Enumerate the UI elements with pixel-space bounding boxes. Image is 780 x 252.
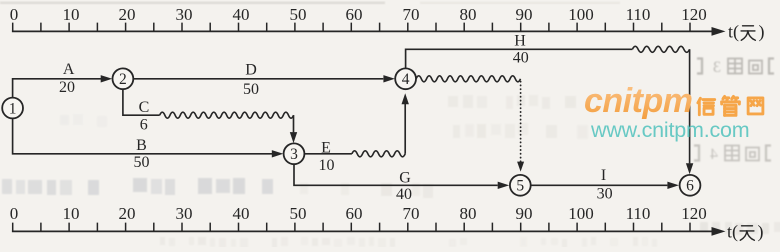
svg-text:B: B xyxy=(136,137,147,154)
wire: activity E from node 3 right, wavy float then up to node 4 xyxy=(305,153,352,155)
arrowhead of A into node 2 xyxy=(101,75,113,82)
wire: dotted drop from day 90 down to node 5 xyxy=(520,82,522,162)
svg-text:50: 50 xyxy=(243,81,259,98)
svg-text:60: 60 xyxy=(346,204,363,223)
arrowhead of C into node 3 xyxy=(290,132,297,143)
svg-text:30: 30 xyxy=(176,5,193,24)
svg-text:D: D xyxy=(245,62,257,79)
svg-text:3: 3 xyxy=(290,146,298,163)
svg-text:0: 0 xyxy=(10,5,19,24)
svg-text:80: 80 xyxy=(460,5,477,24)
watermark logo CJK char xyxy=(698,98,715,114)
svg-text:50: 50 xyxy=(134,154,150,171)
svg-text:0: 0 xyxy=(10,204,19,223)
activity D label / duration 50 xyxy=(243,62,259,99)
svg-text:E: E xyxy=(321,139,331,156)
svg-text:70: 70 xyxy=(403,5,420,24)
svg-text:20: 20 xyxy=(119,204,136,223)
arrowhead of I into node 6 xyxy=(667,182,679,189)
node 5 xyxy=(510,175,531,196)
bottom axis ticks every 5 days xyxy=(13,223,690,232)
arrowhead of E into node 4 xyxy=(402,93,409,104)
watermark logo CJK char xyxy=(748,98,763,114)
wire: activity I from node 5 to node 6 xyxy=(531,184,668,186)
svg-text:40: 40 xyxy=(233,5,250,24)
watermark logo CJK char xyxy=(722,96,740,115)
arrowhead of H into node 6 xyxy=(686,163,693,174)
svg-text:3: 3 xyxy=(713,59,721,76)
svg-text:70: 70 xyxy=(403,204,420,223)
activity C label / duration 6 xyxy=(139,99,150,133)
svg-text:H: H xyxy=(514,33,526,50)
svg-text:40: 40 xyxy=(396,186,412,203)
svg-text:10: 10 xyxy=(63,204,80,223)
top axis line xyxy=(12,30,712,32)
svg-text:100: 100 xyxy=(568,204,594,223)
arrowhead of dotted drop into node 5 xyxy=(517,162,524,172)
svg-text:4: 4 xyxy=(402,71,410,88)
svg-text:cnitpm: cnitpm xyxy=(584,82,692,120)
svg-text:10: 10 xyxy=(63,5,80,24)
activity E label / duration 10 xyxy=(319,139,335,174)
svg-text:C: C xyxy=(139,99,150,116)
arrowhead of G into node 5 xyxy=(498,182,510,189)
wire: activity G from node 3 down and right to node 5 xyxy=(294,164,498,185)
svg-text:G: G xyxy=(399,169,411,186)
svg-text:2: 2 xyxy=(119,71,127,88)
svg-text:100: 100 xyxy=(568,5,594,24)
top axis day numbers xyxy=(10,5,707,24)
svg-text:6: 6 xyxy=(686,178,694,195)
svg-text:110: 110 xyxy=(626,5,651,24)
arrowhead of D into node 4 xyxy=(383,75,395,82)
bottom axis arrowhead xyxy=(712,227,726,236)
activity G label / duration 40 xyxy=(396,169,412,203)
svg-text:20: 20 xyxy=(59,79,75,96)
svg-text:A: A xyxy=(63,61,75,78)
svg-text:4: 4 xyxy=(710,146,718,163)
top axis arrowhead xyxy=(712,27,726,36)
activity I label / duration 30 xyxy=(597,167,613,203)
node 1 xyxy=(2,98,23,119)
svg-text:t(: t( xyxy=(727,221,738,242)
svg-text:40: 40 xyxy=(233,204,250,223)
wire: activity H from node 4 up, right, wavy float, down to node 6 xyxy=(406,49,633,68)
arrowhead of B into node 3 xyxy=(272,150,284,157)
node 6 xyxy=(680,175,701,196)
bottom axis day numbers xyxy=(10,204,707,223)
svg-text:www.cnitpm.com: www.cnitpm.com xyxy=(590,118,749,142)
wire: activity B from node 1 down and right to node 3 xyxy=(13,119,273,154)
wire: dummy free float wavy from node 4 to day 90 xyxy=(416,76,520,82)
activity B label / duration 50 xyxy=(134,137,150,171)
svg-text:60: 60 xyxy=(346,5,363,24)
svg-text:90: 90 xyxy=(516,5,533,24)
top axis ticks every 5 days xyxy=(13,23,690,32)
svg-text:120: 120 xyxy=(681,5,707,24)
svg-text:t(: t( xyxy=(728,21,739,42)
svg-text:80: 80 xyxy=(460,204,477,223)
wire: activity A from node 1 up and right to node 2 xyxy=(13,79,101,98)
axis label t(tian) xyxy=(728,21,765,42)
activity A label / duration 20 xyxy=(59,61,75,96)
svg-text:30: 30 xyxy=(176,204,193,223)
bottom axis line xyxy=(12,230,712,232)
svg-text:): ) xyxy=(759,21,765,42)
node 4 xyxy=(395,68,416,89)
axis label t(tian) xyxy=(727,221,764,242)
svg-text:110: 110 xyxy=(626,204,651,223)
svg-text:40: 40 xyxy=(513,50,529,67)
svg-text:10: 10 xyxy=(319,157,335,174)
activity H label / duration 40 xyxy=(513,33,529,67)
svg-text:5: 5 xyxy=(516,178,524,195)
svg-text:): ) xyxy=(758,221,764,242)
svg-text:I: I xyxy=(601,167,606,184)
node 3 xyxy=(284,143,305,164)
svg-text:120: 120 xyxy=(681,204,707,223)
wire: activity C from node 2 down, solid then wavy float to day 50 xyxy=(123,89,160,115)
svg-text:6: 6 xyxy=(140,117,148,134)
svg-text:30: 30 xyxy=(597,185,613,202)
svg-text:90: 90 xyxy=(516,204,533,223)
wire: activity D from node 2 to node 4 xyxy=(133,78,383,80)
svg-text:1: 1 xyxy=(9,100,17,117)
svg-text:20: 20 xyxy=(119,5,136,24)
svg-text:50: 50 xyxy=(290,204,307,223)
svg-text:50: 50 xyxy=(290,5,307,24)
node 2 xyxy=(113,68,134,89)
